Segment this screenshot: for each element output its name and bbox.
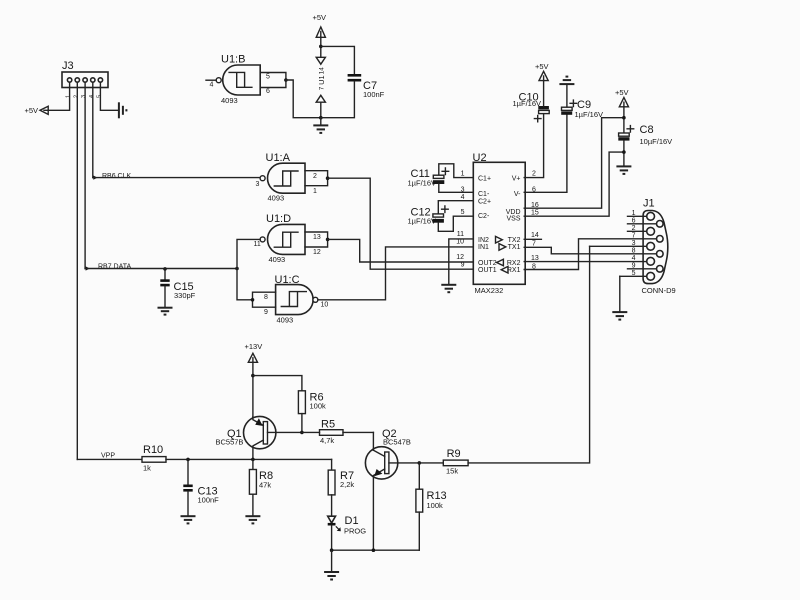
transistor Q2 BC547B (NPN) — [365, 428, 419, 550]
wire bottom rail — [332, 549, 420, 551]
U2 right pin numbers — [531, 171, 539, 271]
junction D1/ground — [330, 548, 334, 552]
svg-text:3: 3 — [256, 181, 260, 188]
power +5V (above C8) — [615, 88, 629, 107]
J1 pin numbers — [632, 210, 636, 277]
wire U2 pin4 to C12 top — [438, 201, 473, 214]
wire J1 pin5 to ground — [619, 276, 621, 311]
svg-text:C8: C8 — [640, 124, 654, 136]
wire RB6 CLK to U1:A output — [93, 177, 260, 179]
wire +5V to U1 power node — [320, 37, 322, 57]
wire U1:C input stubs — [253, 292, 276, 307]
wire U2 pin1 to C11 top — [439, 164, 474, 178]
svg-text:PROG: PROG — [344, 527, 366, 536]
capacitor C13 — [183, 459, 219, 515]
svg-text:U1:B: U1:B — [221, 54, 245, 66]
svg-text:4093: 4093 — [268, 194, 285, 203]
wire U1:B input stubs — [260, 73, 286, 88]
wire branch to C7 — [321, 46, 355, 74]
junction power branch — [319, 45, 323, 49]
wire U1:D inputs to U2 pin 12 — [328, 239, 474, 262]
svg-text:J3: J3 — [62, 60, 74, 72]
capacitor C12 — [408, 206, 449, 226]
svg-text:1µF/16V: 1µF/16V — [575, 110, 604, 119]
svg-text:RB7 DATA: RB7 DATA — [98, 263, 132, 270]
svg-text:MAX232: MAX232 — [475, 286, 504, 295]
junction +13V branch — [251, 374, 255, 378]
svg-text:V+: V+ — [512, 175, 521, 182]
U2 right pin names — [506, 175, 521, 274]
wire U2 pin16 to +5V node — [524, 118, 624, 209]
wire U1:A inputs to U2 pin 9 — [328, 178, 474, 269]
diode D1 — [328, 515, 367, 550]
svg-text:2: 2 — [532, 171, 536, 178]
wire VPP rail right segment — [166, 458, 332, 460]
ground (under C8) — [616, 166, 631, 174]
J3 pin numbers 1-5 (rotated) — [66, 95, 103, 98]
svg-text:D1: D1 — [345, 515, 359, 527]
svg-text:10: 10 — [456, 239, 464, 246]
svg-text:1µF/16V: 1µF/16V — [408, 179, 437, 188]
ground (U2 IN2) — [441, 285, 456, 292]
capacitor C9 — [561, 85, 603, 119]
wire VPP rail left segment — [77, 458, 142, 460]
svg-text:4: 4 — [461, 194, 465, 201]
svg-text:10µF/16V: 10µF/16V — [640, 137, 673, 146]
svg-text:RB6 CLK: RB6 CLK — [102, 173, 132, 180]
svg-text:3: 3 — [81, 95, 87, 98]
svg-text:R10: R10 — [143, 444, 163, 456]
svg-text:1µF/16V: 1µF/16V — [513, 99, 542, 108]
svg-text:8: 8 — [264, 294, 268, 301]
resistor R6 — [298, 391, 326, 433]
svg-text:+5V: +5V — [25, 106, 39, 115]
svg-text:14: 14 — [319, 67, 326, 75]
svg-text:13: 13 — [313, 234, 321, 241]
wire +5V to C8 — [623, 107, 625, 133]
svg-text:4,7k: 4,7k — [320, 436, 334, 445]
wire U2 pin6 to C9 — [524, 115, 567, 193]
wire J3 pin4 to RB6 CLK — [92, 82, 94, 177]
wire C11 bottom to U2 pin3 — [439, 184, 474, 192]
U1 power pin labels — [317, 67, 326, 91]
svg-text:TX1: TX1 — [508, 244, 521, 251]
transistor Q1 BC557B (PNP) — [216, 416, 302, 459]
svg-text:9: 9 — [461, 262, 465, 269]
wire U1:D input stubs — [305, 232, 328, 247]
svg-text:RX2: RX2 — [507, 260, 521, 267]
svg-text:1µF/16V: 1µF/16V — [408, 217, 437, 226]
junction ground node — [319, 116, 323, 120]
wire U2 pin2 to C10 — [524, 114, 543, 178]
svg-text:12: 12 — [456, 254, 464, 261]
svg-text:U1: U1 — [317, 75, 326, 85]
svg-text:1: 1 — [66, 95, 72, 98]
svg-text:U1:D: U1:D — [266, 213, 291, 225]
wire U2 pin13 (RX2) to J1 pin4 — [524, 261, 647, 263]
svg-text:RX1: RX1 — [507, 267, 521, 274]
junction C8/VSS — [622, 150, 626, 154]
svg-text:U1:A: U1:A — [266, 152, 291, 164]
wire J1 pin3 lead — [590, 245, 647, 247]
power +5V (above C10) — [535, 62, 549, 81]
svg-text:5: 5 — [96, 95, 102, 98]
ground (J1 pin5) — [612, 312, 627, 320]
svg-text:BC547B: BC547B — [383, 438, 411, 447]
svg-text:5: 5 — [632, 270, 636, 277]
wire R5 to Q2 collector — [372, 432, 374, 450]
svg-text:14: 14 — [531, 232, 539, 239]
wire RB7 DATA — [85, 268, 237, 270]
wire U2 pin11 to ground — [449, 239, 474, 284]
J1 pin stubs — [620, 216, 657, 276]
svg-text:100nF: 100nF — [363, 90, 385, 99]
svg-text:+5V: +5V — [535, 62, 549, 71]
svg-text:5: 5 — [461, 209, 465, 216]
wire to ground below D1 — [331, 550, 333, 571]
svg-text:8: 8 — [632, 247, 636, 254]
wire U1:C output to U2 pin 10 — [318, 247, 473, 300]
node RB6 CLK — [93, 173, 131, 180]
svg-text:9: 9 — [632, 262, 636, 269]
resistor R10 — [142, 444, 166, 473]
svg-text:R9: R9 — [447, 448, 461, 460]
resistor R9 — [443, 246, 589, 475]
svg-text:6: 6 — [632, 217, 636, 224]
svg-text:CONN-D9: CONN-D9 — [642, 286, 676, 295]
svg-text:2,2k: 2,2k — [340, 480, 354, 489]
svg-text:100nF: 100nF — [198, 496, 220, 505]
capacitor C8 — [618, 124, 672, 166]
U1 power pin 14 arrow — [316, 57, 325, 64]
svg-text:IN2: IN2 — [478, 237, 489, 244]
svg-text:4: 4 — [89, 95, 95, 98]
svg-text:15k: 15k — [446, 467, 458, 476]
svg-text:+13V: +13V — [245, 342, 263, 351]
capacitor C10 — [513, 81, 550, 122]
wire U1:B inputs to ground node — [286, 80, 321, 118]
wire J3 pin5 to ground — [100, 82, 119, 110]
svg-text:VSS: VSS — [506, 215, 520, 222]
U2 left pin names — [478, 175, 497, 274]
power +5V (left of J3) — [25, 106, 49, 115]
capacitor C15 — [160, 269, 195, 307]
svg-text:1k: 1k — [143, 464, 151, 473]
ground (above C9, inverted) — [559, 77, 574, 85]
wire J3 pin2 (VPP vertical) — [76, 82, 78, 459]
svg-text:330pF: 330pF — [174, 291, 196, 300]
op-amp U1:A (4093 NAND gate, mirrored) — [256, 152, 318, 203]
junction Q1 collector tap — [251, 458, 255, 462]
svg-text:4093: 4093 — [221, 96, 238, 105]
svg-text:4: 4 — [632, 255, 636, 262]
svg-text:U1:C: U1:C — [275, 274, 300, 286]
svg-text:VPP: VPP — [101, 453, 115, 460]
wire C12 bottom to U2 pin5 — [438, 216, 473, 231]
wire base line to R9 — [419, 462, 443, 464]
U2 left pin numbers — [456, 171, 464, 269]
wire J3 pin3 to RB7 DATA — [84, 82, 86, 268]
svg-text:IN1: IN1 — [478, 244, 489, 251]
svg-text:3: 3 — [632, 240, 636, 247]
svg-text:12: 12 — [313, 249, 321, 256]
junction Q1 base / R6 / R5 — [300, 431, 304, 435]
wire pin7 arrow to ground — [320, 102, 322, 118]
wire branch to R6 top — [253, 376, 302, 391]
svg-text:C2+: C2+ — [478, 198, 491, 205]
svg-text:OUT1: OUT1 — [478, 267, 497, 274]
junction +5V/VDD — [622, 116, 626, 120]
ground under C15 — [158, 308, 173, 315]
resistor R7 — [328, 459, 354, 516]
svg-text:10: 10 — [321, 301, 329, 308]
U2 buffer triangles TX2/TX1 — [496, 236, 506, 250]
junction RB7/U1:D node — [235, 267, 239, 271]
capacitor C11 — [408, 168, 449, 188]
svg-text:R13: R13 — [427, 490, 447, 502]
svg-text:7: 7 — [632, 232, 636, 239]
svg-text:2: 2 — [632, 225, 636, 232]
resistor R5 — [302, 418, 374, 445]
svg-text:11: 11 — [457, 231, 464, 238]
svg-text:+5V: +5V — [615, 88, 629, 97]
wire +13V down to Q1 emitter — [252, 362, 254, 417]
connector J3 — [62, 60, 108, 88]
svg-text:1: 1 — [461, 171, 465, 178]
ground (rotated) at J3 pin5 — [119, 102, 127, 118]
junction U1:B inputs — [284, 78, 288, 82]
svg-text:OUT2: OUT2 — [478, 260, 497, 267]
U2 buffer triangles RX2/RX1 — [497, 259, 508, 273]
wire U1:A input stubs — [305, 171, 328, 186]
svg-text:V-: V- — [514, 191, 521, 198]
svg-text:11: 11 — [254, 241, 261, 248]
resistor R8 — [249, 459, 273, 515]
power +5V (top center) — [313, 13, 327, 37]
svg-text:J1: J1 — [643, 198, 655, 210]
ground (U1 power) — [313, 118, 328, 133]
connector J1 — [642, 198, 676, 295]
junction C15 tap — [163, 267, 167, 271]
svg-text:C2-: C2- — [478, 213, 490, 220]
junction Q2 emitter — [372, 548, 376, 552]
wire U2 pin14 stub — [524, 238, 541, 240]
svg-text:1: 1 — [313, 188, 317, 195]
op-amp U1:B (4093 NAND gate, mirrored) — [206, 54, 270, 105]
svg-text:100k: 100k — [310, 402, 327, 411]
junction C13 tap — [186, 458, 190, 462]
svg-text:R5: R5 — [321, 418, 335, 430]
svg-text:6: 6 — [266, 88, 270, 95]
svg-text:C1-: C1- — [478, 191, 490, 198]
svg-text:47k: 47k — [259, 480, 271, 489]
ground under R8 — [245, 516, 260, 523]
svg-text:BC557B: BC557B — [216, 438, 244, 447]
svg-text:TX2: TX2 — [508, 237, 521, 244]
power +13V — [245, 342, 263, 362]
svg-text:4093: 4093 — [269, 255, 286, 264]
junction U1:D inputs — [326, 238, 330, 242]
svg-text:4093: 4093 — [277, 315, 294, 324]
svg-text:9: 9 — [264, 309, 268, 316]
svg-text:C1+: C1+ — [478, 175, 491, 182]
ground (bottom) — [324, 572, 339, 580]
svg-text:2: 2 — [73, 95, 79, 98]
capacitor C7 — [321, 75, 385, 117]
svg-text:2: 2 — [313, 173, 317, 180]
op-amp U1:D (4093 NAND gate, mirrored) — [254, 213, 321, 264]
wire J3 pin1 to +5V — [48, 82, 69, 110]
junction U1:C inputs — [251, 298, 255, 302]
IC U2 MAX232 — [473, 152, 526, 295]
U1 power pin 7 arrow — [316, 95, 325, 102]
svg-text:1: 1 — [632, 210, 636, 217]
svg-text:+5V: +5V — [313, 13, 327, 22]
svg-text:7: 7 — [319, 86, 326, 90]
node RB7 DATA — [86, 263, 132, 270]
svg-text:100k: 100k — [427, 501, 444, 510]
svg-text:4: 4 — [210, 82, 214, 89]
wire U2 pin8 (RX1) to J1 pin7 — [524, 239, 656, 270]
wire U2 pin7 (TX1) to J1 pin8 — [524, 247, 656, 254]
resistor R13 — [416, 463, 447, 550]
wire U1:D output to RB7 node and U1:C — [237, 239, 260, 299]
svg-text:5: 5 — [266, 74, 270, 81]
junction Q2 base / R13 — [418, 461, 422, 465]
svg-text:U2: U2 — [473, 152, 487, 164]
junction U1:A inputs — [326, 176, 330, 180]
wire U2 pin15 to C8 node — [524, 152, 624, 216]
op-amp U1:C (4093 NAND gate) — [264, 274, 328, 324]
ground under C13 — [181, 516, 196, 523]
